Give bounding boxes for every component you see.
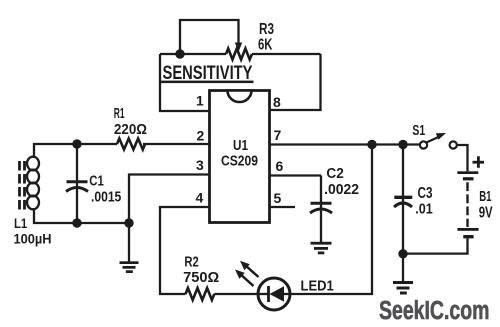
wire switch to battery top [457,145,468,171]
wire right vertical from R3 line to pin 8 [270,54,321,110]
wire R3 net horizontal right segment [252,53,321,55]
wire left vertical from R3 line to pin 1 [160,54,209,111]
node junction dot at R3 line left [175,49,184,58]
node junction dot LED return [367,140,376,149]
LED1 circle [258,278,290,310]
switch S1 throw circle [450,141,457,148]
svg-text:C2: C2 [326,166,343,182]
wire pin 5 stub [270,206,295,208]
svg-text:6K: 6K [258,37,273,54]
battery B1 top cell short plate [463,177,474,180]
svg-text:.0022: .0022 [324,182,359,198]
wire R2 to LED [214,293,258,295]
switch S1 pole circle [420,141,427,148]
node junction dot L1/C1 bottom [72,218,81,227]
svg-text:R1: R1 [114,106,125,122]
wire LED to pin7 net vertical [290,145,373,295]
resistor R1 [117,139,145,150]
ground symbol below C2 [311,242,332,255]
node junction dot battery return [398,249,407,258]
ground symbol right [393,281,413,295]
LED1 inner leads [259,293,268,295]
svg-text:R2: R2 [184,255,198,271]
wiper arrow of R3 [235,43,242,53]
resistor R3 [226,49,252,60]
svg-text:L1: L1 [14,216,28,231]
wire wiper feedback loop top [180,20,239,54]
battery B1 top cell long plate [457,171,478,174]
svg-text:B1: B1 [479,188,491,205]
node junction dot C3 top [398,140,407,149]
wire R3 net horizontal left segment [160,53,226,55]
svg-text:C1: C1 [89,173,104,189]
wire ground stem right [402,254,404,281]
svg-text:750Ω: 750Ω [183,270,219,286]
capacitor C3 [394,145,412,255]
svg-text:CS209: CS209 [221,154,258,170]
battery B1 dashed middle [466,182,468,227]
svg-text:1: 1 [196,93,204,109]
svg-text:220Ω: 220Ω [114,122,147,138]
switch S1 blade with arrow [426,133,446,143]
battery B1 bottom cell long plate [457,228,478,231]
core dashed line 2 of L1 [23,161,26,210]
label plus sign [473,156,485,168]
inductor L1 loops [27,157,39,210]
svg-text:SeekIC.com: SeekIC.com [379,297,490,325]
underline of SENSITIVITY [161,81,254,84]
svg-text:100µH: 100µH [14,231,52,247]
wire pin 7 net to switch [270,143,420,145]
IC notch [228,91,252,103]
svg-text:U1: U1 [233,138,248,154]
core dashed line 1 of L1 [18,161,21,210]
svg-text:6: 6 [276,158,284,174]
svg-text:9V: 9V [479,205,493,222]
wire R1 to pin 2 [143,143,209,145]
svg-text:R3: R3 [259,21,274,38]
wire pin 3 net [129,175,209,224]
svg-text:5: 5 [274,190,282,206]
svg-text:C3: C3 [418,185,433,202]
wire ground stem bottom-left [128,223,130,262]
LED1 emission arrow 1 [235,270,254,287]
svg-text:8: 8 [273,94,281,110]
svg-text:7: 7 [274,127,282,143]
node junction dot C1 top [72,139,81,148]
svg-text:S1: S1 [412,123,425,139]
IC U1 body [210,91,270,223]
wire L1 bottom lead [34,208,129,223]
svg-text:3: 3 [196,157,204,173]
svg-text:2: 2 [197,128,205,144]
LED1 diode cathode bar [267,286,270,302]
wire battery bottom to ground junction [403,238,468,253]
LED1 diode triangle [270,286,285,301]
svg-text:LED1: LED1 [301,279,334,295]
LED1 emission arrow 2 [240,261,259,277]
wire L1 top lead to R1 [34,144,117,158]
wire pin 6 to C2 [270,174,321,176]
wire pin 4 vertical to R2 [160,207,209,294]
capacitor C2 [310,176,332,243]
node junction dot bottom-left ground [124,218,133,227]
svg-text:.01: .01 [415,201,433,218]
svg-text:.0015: .0015 [91,189,121,205]
resistor R2 [186,288,215,300]
capacitor C1 [66,144,88,223]
battery B1 bottom cell short plate [463,235,473,238]
ground symbol bottom-left [120,261,139,273]
svg-text:4: 4 [196,190,204,206]
